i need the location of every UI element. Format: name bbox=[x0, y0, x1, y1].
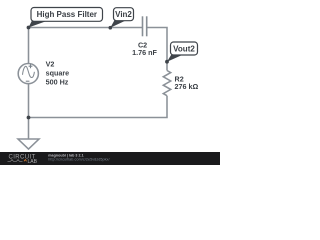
voltage source V2 circle bbox=[18, 64, 38, 84]
svg-text:http://circuitlab.com/c/2e5v8z: http://circuitlab.com/c/2e5v8zd5pkx/ bbox=[48, 158, 110, 162]
wire V2 bottom down to ground bbox=[28, 84, 30, 139]
node anchor Vout2 bbox=[165, 60, 169, 64]
flag tail Vin2 bbox=[110, 20, 126, 28]
svg-text:Vout2: Vout2 bbox=[173, 44, 195, 53]
capacitor C2 plates bbox=[143, 16, 147, 36]
voltage source V2 labels bbox=[46, 59, 70, 86]
capacitor C2 value labels bbox=[132, 41, 157, 58]
svg-text:High Pass Filter: High Pass Filter bbox=[37, 10, 97, 19]
svg-text:square: square bbox=[46, 68, 70, 77]
node anchor Vin2 bbox=[109, 26, 113, 30]
junction node at bottom-left bbox=[27, 116, 31, 120]
wire C2 right plate to top-right corner then down to R2 top bbox=[147, 28, 167, 71]
ground symbol bbox=[18, 139, 39, 149]
node anchor High Pass Filter bbox=[27, 26, 31, 30]
flag box Vout2 bbox=[171, 42, 198, 55]
flag tail High Pass Filter bbox=[29, 20, 47, 28]
voltage source V2 sine glyph bbox=[23, 66, 35, 77]
wire left vertical (top node down to V2 top) bbox=[28, 28, 30, 64]
footer CircuitLab logo waveform bbox=[8, 160, 23, 162]
flag tail Vout2 bbox=[167, 54, 183, 62]
resistor R2 value labels bbox=[175, 74, 199, 91]
wire bottom horizontal (R2 bottom to ground junction) bbox=[29, 96, 168, 118]
voltage source V2 minus sign bbox=[26, 80, 30, 82]
footer bar bbox=[0, 152, 220, 165]
svg-text:Vin2: Vin2 bbox=[115, 10, 132, 19]
flag box High Pass Filter bbox=[31, 8, 103, 22]
svg-text:1.76 nF: 1.76 nF bbox=[132, 48, 157, 57]
svg-text:V2: V2 bbox=[46, 59, 55, 68]
footer CircuitLab logo orange tick bbox=[24, 160, 27, 162]
wire top-left horizontal (node to C2 left plate) bbox=[29, 27, 143, 29]
svg-text:276 kΩ: 276 kΩ bbox=[175, 82, 199, 91]
svg-text:LAB: LAB bbox=[28, 159, 38, 165]
voltage source V2 plus sign bbox=[29, 64, 33, 68]
flag box Vin2 bbox=[114, 8, 134, 21]
svg-text:500 Hz: 500 Hz bbox=[46, 77, 69, 86]
resistor R2 zigzag bbox=[163, 71, 170, 96]
